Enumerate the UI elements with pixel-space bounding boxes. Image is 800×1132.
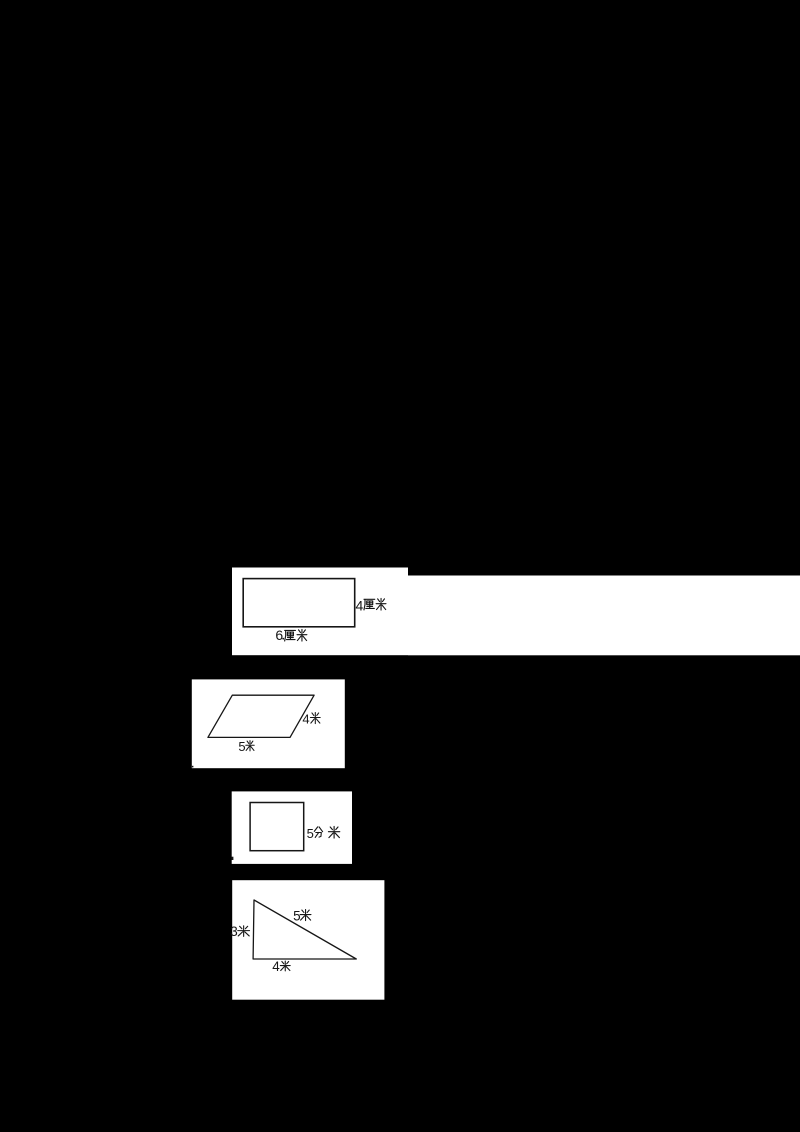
svg-text:5: 5 <box>307 826 314 841</box>
svg-text:5: 5 <box>293 908 301 923</box>
svg-text:4: 4 <box>302 712 309 727</box>
svg-text:6: 6 <box>275 627 283 643</box>
svg-text:3: 3 <box>230 924 238 939</box>
svg-text:4: 4 <box>356 597 364 613</box>
svg-text:5: 5 <box>238 739 245 754</box>
svg-text:4: 4 <box>272 959 280 974</box>
